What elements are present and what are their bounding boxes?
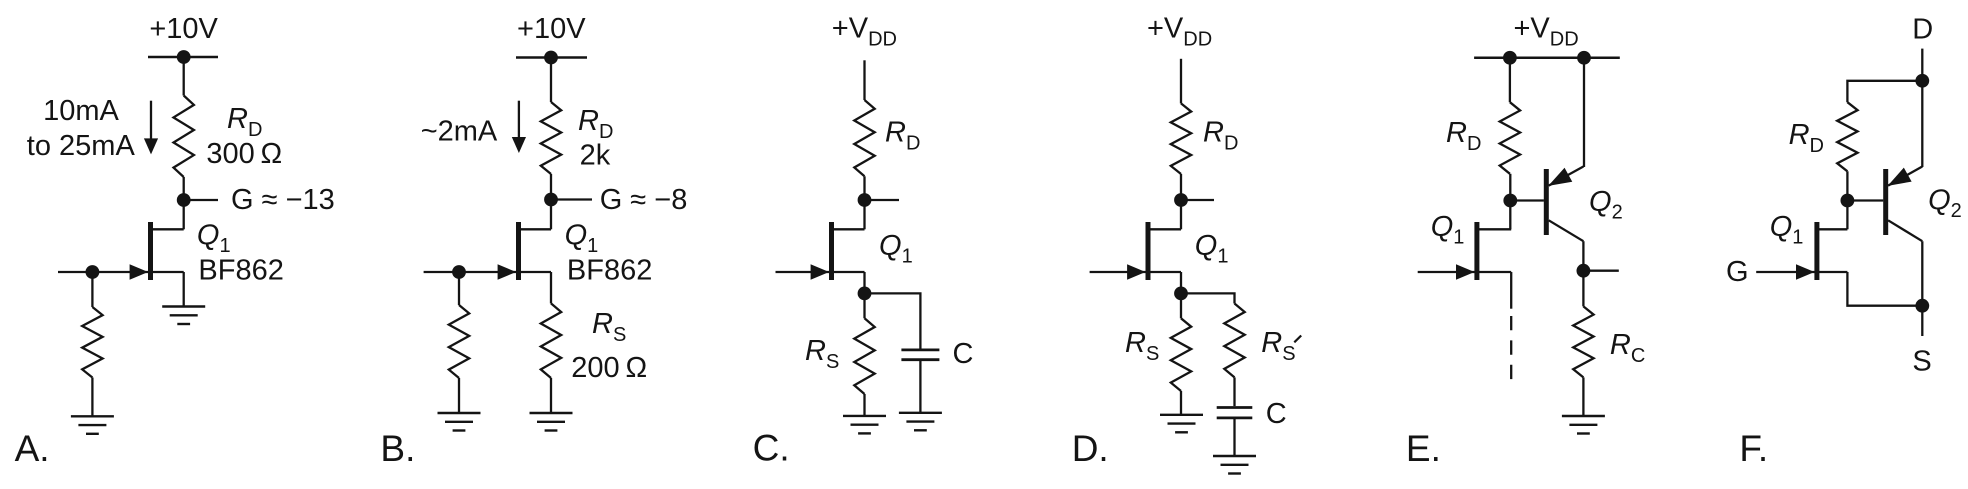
wire source to RS (C) [863, 293, 865, 318]
wire source to RS (B) [550, 272, 552, 303]
junction rail right (E) [1577, 51, 1591, 65]
jfet Q1 (F) [1756, 222, 1847, 280]
junction gate node (A) [86, 265, 100, 279]
wire source down (C) [863, 272, 865, 293]
svg-text:2k: 2k [580, 140, 611, 172]
junction source node (C) [858, 287, 872, 301]
wire base (F) [1847, 199, 1883, 201]
svg-text:300 Ω: 300 Ω [206, 138, 282, 170]
wire source to RS (D) [1180, 293, 1182, 318]
svg-text:Q1: Q1 [565, 220, 599, 258]
svg-text:RD: RD [578, 105, 613, 143]
capacitor C (C) [901, 350, 939, 360]
wire emitter vertical (F) [1921, 81, 1923, 167]
ground cap (D) [1213, 456, 1256, 474]
svg-text:C: C [953, 338, 974, 370]
capacitor C (D) [1217, 408, 1253, 418]
wire supply to RD (B) [550, 58, 552, 103]
wire drain node stub (D) [1187, 199, 1214, 201]
wire RD to drain node (C) [863, 176, 865, 229]
wire supply to RD (A) [183, 57, 185, 96]
wire source path (F) [1847, 272, 1922, 306]
junction drain node (C) [858, 193, 872, 207]
svg-text:G: G [1726, 256, 1749, 288]
svg-text:200 Ω: 200 Ω [571, 352, 647, 384]
svg-text:Q1: Q1 [1770, 211, 1804, 249]
ground source (A) [162, 307, 205, 325]
pnp Q2 (E) [1544, 167, 1584, 242]
jfet Q1 (A) [58, 222, 184, 280]
junction source node (D) [1174, 287, 1188, 301]
wire source node to cap (C) [865, 293, 921, 348]
svg-text:A.: A. [15, 428, 50, 469]
junction supply node (A) [177, 50, 191, 64]
resistor RD 2k (B) [541, 102, 561, 174]
svg-text:RC: RC [1610, 329, 1645, 367]
junction base node (E) [1503, 194, 1517, 208]
wire rail to RD (E) [1509, 58, 1511, 102]
svg-text:Q1: Q1 [1195, 230, 1229, 268]
svg-text:RS: RS [805, 335, 839, 373]
resistor RS (D) [1171, 318, 1191, 391]
svg-text:RD: RD [1446, 117, 1481, 155]
wire cap to ground (D) [1233, 419, 1235, 456]
svg-text:C.: C. [753, 428, 790, 469]
wire RD to drain node (D) [1180, 174, 1182, 229]
svg-text:RS: RS [592, 308, 626, 346]
svg-text:D.: D. [1072, 428, 1109, 469]
svg-text:10mA: 10mA [43, 95, 119, 127]
ground cap (C) [899, 413, 942, 431]
wire RS to ground (C) [863, 394, 865, 416]
svg-text:RD: RD [1203, 117, 1238, 155]
wire collector vertical (E) [1582, 241, 1584, 271]
junction gate node (B) [452, 265, 466, 279]
svg-text:~2mA: ~2mA [421, 116, 498, 148]
wire source down (A) [183, 272, 185, 306]
svg-text:Q2: Q2 [1589, 186, 1623, 224]
supply rail +10V (B) [516, 56, 587, 59]
ground RS (D) [1160, 415, 1203, 433]
junction G node (A) [177, 193, 191, 207]
svg-text:+VDD: +VDD [1514, 13, 1579, 51]
svg-text:BF862: BF862 [567, 254, 652, 286]
resistor gate bias (A) [82, 307, 102, 378]
wire drain node stub (C) [871, 199, 899, 201]
svg-text:F.: F. [1739, 428, 1768, 469]
resistor RD (D) [1171, 103, 1191, 174]
wire RS to ground (D) [1180, 391, 1182, 415]
junction drain node (D) [1174, 193, 1188, 207]
wire RSp to cap (D) [1233, 377, 1235, 406]
wire collector stub (E) [1590, 270, 1619, 272]
resistor RS (C) [854, 318, 874, 394]
wire S down (F) [1921, 306, 1923, 336]
svg-text:Q1: Q1 [879, 230, 913, 268]
wire RD to base node (E) [1509, 174, 1511, 230]
svg-text:+VDD: +VDD [832, 13, 897, 51]
svg-text:+10V: +10V [149, 13, 218, 45]
junction base node (F) [1841, 194, 1855, 208]
wire RD to drain node (B) [550, 174, 552, 229]
svg-text:Q1: Q1 [197, 220, 231, 258]
wire gate resistor to ground (B) [458, 378, 460, 413]
wire D node to RD (F) [1847, 81, 1922, 102]
junction G node (B) [544, 193, 558, 207]
pnp Q2 (F) [1883, 167, 1922, 242]
svg-text:RS: RS [1125, 327, 1159, 365]
supply rail VDD (E) [1474, 57, 1620, 60]
svg-text:S: S [1912, 346, 1931, 378]
svg-text:Q1: Q1 [1431, 211, 1465, 249]
svg-text:RD: RD [227, 103, 262, 141]
wire source dashed (E) [1510, 316, 1512, 383]
wire base (E) [1510, 199, 1544, 201]
resistor RS 200ohm (B) [541, 303, 561, 378]
ground RS (C) [843, 416, 886, 434]
jfet Q1 (D) [1090, 222, 1181, 280]
wire G node stub (B) [557, 198, 592, 200]
resistor RD 300ohm (A) [174, 96, 194, 178]
ground RC (E) [1562, 416, 1605, 434]
svg-text:Q2: Q2 [1928, 185, 1962, 223]
wire gate node down (B) [458, 272, 460, 305]
svg-text:+10V: +10V [517, 13, 586, 45]
svg-text:RD: RD [1789, 119, 1824, 157]
svg-text:E.: E. [1406, 428, 1441, 469]
wire G node stub (A) [190, 199, 218, 201]
junction collector node (E) [1577, 264, 1591, 278]
resistor RD (E) [1500, 102, 1520, 174]
wire RD to base node (F) [1846, 171, 1848, 229]
wire gate resistor to ground (A) [91, 378, 93, 417]
svg-text:G ≈ −8: G ≈ −8 [600, 184, 688, 216]
svg-text:B.: B. [380, 428, 415, 469]
resistor RSprime (D) [1224, 304, 1244, 378]
svg-text:RS: RS [1261, 327, 1295, 365]
wire source solid (E) [1510, 272, 1512, 309]
svg-text:G ≈ −13: G ≈ −13 [231, 184, 335, 216]
svg-text:RD: RD [885, 117, 920, 155]
resistor RD (C) [854, 100, 874, 176]
current arrow ~2mA (B) [512, 101, 526, 153]
current arrow 10-25mA (A) [144, 101, 158, 155]
ground gate resistor (B) [438, 413, 481, 431]
wire collector vertical (F) [1921, 241, 1923, 306]
svg-text:BF862: BF862 [198, 254, 283, 286]
svg-text:D: D [1912, 13, 1933, 45]
ground gate resistor (A) [71, 416, 114, 434]
svg-text:C: C [1266, 398, 1287, 430]
jfet Q1 (E) [1418, 222, 1512, 280]
wire RD to drain node (A) [183, 177, 185, 229]
supply rail +10V (A) [148, 56, 218, 59]
junction D node (F) [1915, 74, 1929, 88]
resistor gate bias (B) [449, 305, 469, 378]
jfet Q1 (C) [776, 222, 865, 280]
resistor RC (E) [1573, 306, 1593, 377]
junction S node (F) [1915, 299, 1929, 313]
junction rail left (E) [1503, 51, 1517, 65]
wire RS to ground (B) [550, 378, 552, 413]
resistor RD (F) [1837, 102, 1857, 171]
wire VDD to RD (D) [1180, 59, 1182, 104]
wire source node to RSp (D) [1181, 293, 1235, 303]
wire VDD to RD (C) [863, 60, 865, 100]
wire D down (F) [1921, 49, 1923, 81]
jfet Q1 (B) [424, 222, 551, 280]
junction supply node (B) [544, 51, 558, 65]
wire cap to ground (C) [919, 361, 921, 412]
wire emitter vertical (E) [1583, 58, 1585, 167]
wire collector to RC (E) [1582, 271, 1584, 307]
svg-text:to 25mA: to 25mA [27, 130, 136, 162]
wire source down (D) [1180, 272, 1182, 293]
wire gate node down (A) [91, 272, 93, 307]
wire RC to ground (E) [1582, 377, 1584, 415]
ground RS (B) [530, 413, 573, 431]
svg-text:+VDD: +VDD [1147, 13, 1212, 51]
